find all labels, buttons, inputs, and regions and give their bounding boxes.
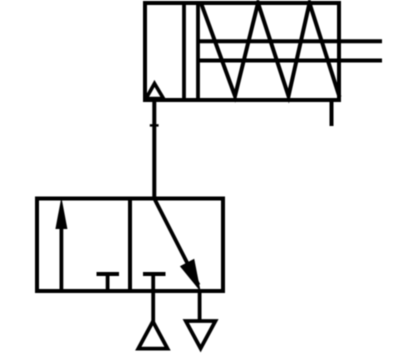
blocked port T (left chamber)	[97, 272, 120, 276]
piston rod top line	[198, 39, 382, 43]
piston right face	[196, 3, 200, 100]
cylinder port arrow (triangle inside cylinder bottom-left)	[146, 84, 164, 99]
piston left face	[182, 3, 186, 100]
piston rod bottom line	[198, 59, 382, 63]
wire: cylinder port to valve	[152, 100, 156, 199]
blocked port T (right chamber)	[143, 272, 166, 276]
wire: valve port 1 down to air supply	[151, 291, 155, 322]
valve body (3/2-way valve)	[37, 199, 223, 292]
return spring	[201, 3, 340, 97]
valve chamber divider	[128, 199, 132, 292]
left position flow arrow shaft	[60, 227, 64, 291]
left position flow arrowhead	[55, 197, 67, 229]
wire: valve port 3 down to exhaust	[198, 291, 202, 321]
exhaust triangle	[186, 321, 216, 348]
compressed air source triangle	[138, 322, 167, 349]
junction tick on wire	[150, 124, 159, 126]
cylinder body (single-acting cylinder)	[145, 3, 339, 100]
cylinder right vent stub	[330, 100, 334, 126]
diagonal flow arrowhead	[180, 259, 201, 292]
right position flow path (diagonal)	[154, 199, 198, 286]
